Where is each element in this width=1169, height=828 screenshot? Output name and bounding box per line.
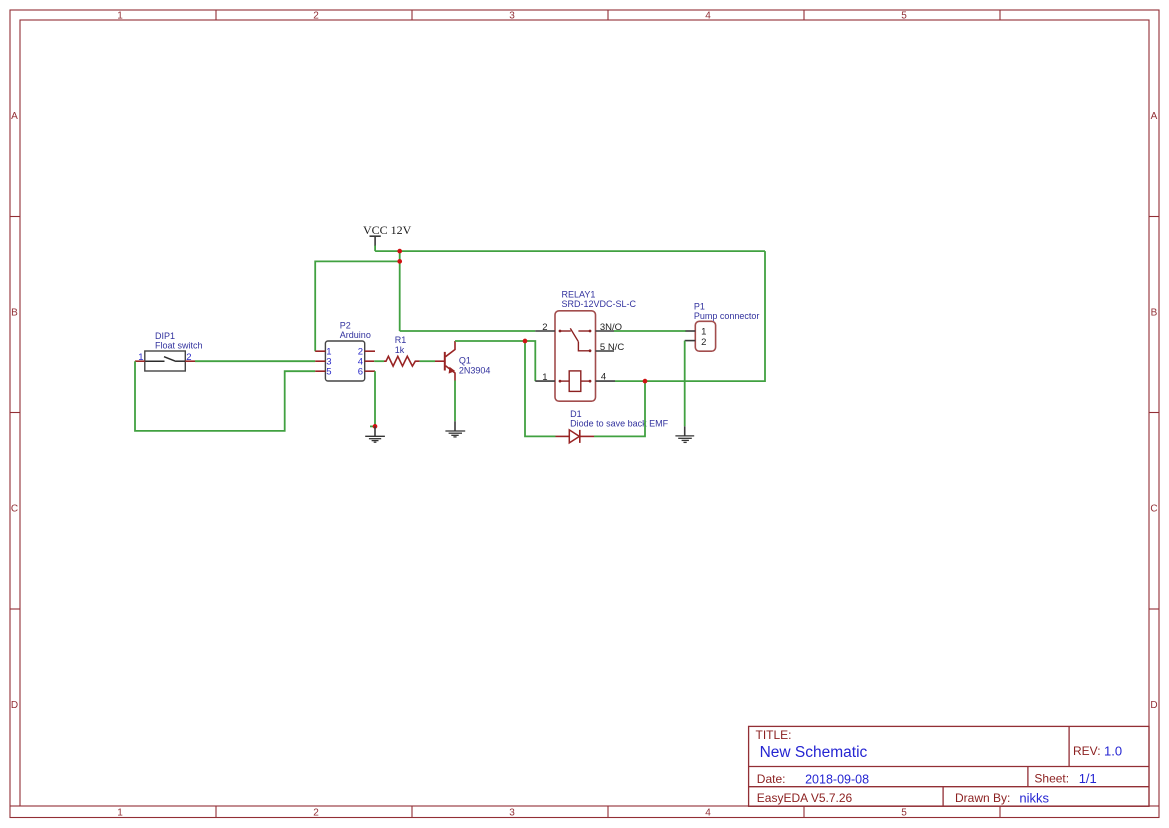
wire VCC drop to relay pin2 [399, 251, 401, 331]
ground under Q1 [445, 421, 465, 437]
svg-text:4: 4 [601, 372, 606, 383]
svg-text:4: 4 [705, 808, 711, 819]
svg-text:6: 6 [358, 367, 363, 378]
wire P2 pin4 to R1 [374, 360, 384, 362]
svg-text:4: 4 [705, 11, 711, 22]
resistor R1 [384, 356, 420, 366]
svg-text:1: 1 [117, 11, 123, 22]
svg-text:1.0: 1.0 [1104, 743, 1122, 758]
power flag VCC 12V [363, 223, 412, 251]
svg-text:2: 2 [701, 337, 706, 348]
RELAY1 pin numbers [542, 322, 624, 383]
svg-text:1: 1 [701, 327, 706, 338]
wire diode to relay pin4 [594, 381, 645, 436]
junction dot relay pin4 [643, 379, 648, 384]
junction dot P2 pin6 ground [373, 424, 378, 429]
Q1 labels [459, 356, 491, 376]
P1 pin numbers [701, 327, 706, 349]
wire stub left of junction [370, 425, 374, 427]
D1 labels [570, 409, 669, 429]
junction dot VCC rail [397, 249, 402, 254]
svg-text:B: B [1151, 307, 1158, 318]
diode D1 [556, 430, 595, 443]
svg-text:C: C [1150, 504, 1157, 515]
DIP1 labels [155, 331, 203, 351]
relay RELAY1 body [555, 311, 596, 401]
P1 labels [694, 301, 760, 321]
svg-text:A: A [11, 111, 18, 122]
svg-text:D: D [11, 700, 18, 711]
RELAY1 labels [562, 289, 637, 309]
svg-text:Float switch: Float switch [155, 341, 203, 351]
svg-text:B: B [11, 307, 18, 318]
svg-text:R1: R1 [395, 335, 407, 345]
RELAY1 pin 3 stub [596, 330, 615, 332]
DIP switch DIP1 [135, 351, 195, 371]
svg-text:5: 5 [901, 11, 907, 22]
junction dot collector/diode branch [523, 339, 528, 344]
svg-text:Date:: Date: [757, 772, 786, 786]
svg-text:nikks: nikks [1019, 791, 1049, 806]
RELAY1 coil [559, 371, 592, 392]
svg-text:Diode to save back EMF: Diode to save back EMF [570, 419, 669, 429]
wire DIP1 pin1 loop to P2 pin5 [135, 361, 315, 431]
svg-text:2N3904: 2N3904 [459, 365, 491, 375]
ground under P2 [365, 426, 385, 442]
RELAY1 pin 4 stub [596, 380, 616, 382]
svg-text:1: 1 [542, 372, 547, 383]
wire right rail to relay pin4 [615, 251, 765, 381]
wire to relay pin 2 [400, 330, 536, 332]
RELAY1 pin 5 stub [596, 350, 615, 352]
svg-text:EasyEDA V5.7.26: EasyEDA V5.7.26 [757, 791, 853, 805]
P2 labels [340, 321, 371, 341]
wire DIP1 pin2 to P2 pin3 [195, 360, 315, 362]
junction dot P2 pin1 branch [397, 259, 402, 264]
svg-text:3: 3 [509, 808, 515, 819]
svg-text:DIP1: DIP1 [155, 331, 175, 341]
wire P2 pin6 to ground [374, 371, 376, 426]
svg-text:C: C [11, 504, 18, 515]
transistor Q1 2N3904 [435, 341, 455, 381]
svg-text:New Schematic: New Schematic [760, 744, 868, 761]
svg-text:2: 2 [186, 352, 191, 363]
R1 labels [395, 335, 407, 355]
svg-text:P2: P2 [340, 321, 351, 331]
svg-text:1/1: 1/1 [1079, 771, 1097, 786]
wire relay pin4 junction to diode [525, 341, 556, 436]
svg-text:REV:: REV: [1073, 744, 1101, 758]
svg-text:5: 5 [901, 808, 907, 819]
connector P2 Arduino [315, 341, 375, 381]
svg-text:2: 2 [313, 11, 319, 22]
svg-text:SRD-12VDC-SL-C: SRD-12VDC-SL-C [562, 299, 637, 309]
svg-text:D: D [1150, 700, 1157, 711]
svg-text:2: 2 [542, 322, 547, 333]
DIP1 pin numbers 1,2 [138, 352, 191, 363]
svg-text:P1: P1 [694, 301, 705, 311]
wire P1 pin2 to ground [684, 341, 686, 427]
svg-text:3: 3 [509, 11, 515, 22]
svg-text:2018-09-08: 2018-09-08 [805, 773, 869, 787]
wire to P2 pin 1 [315, 261, 400, 351]
svg-text:Pump connector: Pump connector [694, 311, 760, 321]
wire R1 to Q1 base [420, 360, 435, 362]
svg-text:2: 2 [313, 808, 319, 819]
title block [749, 726, 1149, 806]
RELAY1 pin 2 stub [535, 330, 555, 332]
RELAY1 pin 1 stub [535, 380, 555, 382]
wire Q1 emitter to ground [454, 381, 456, 422]
svg-text:1: 1 [117, 808, 123, 819]
svg-text:Arduino: Arduino [340, 330, 371, 340]
ground under P1 [675, 426, 694, 442]
svg-text:Q1: Q1 [459, 356, 471, 366]
connector P1 Pump connector [685, 321, 716, 351]
svg-text:TITLE:: TITLE: [756, 728, 792, 742]
svg-text:A: A [1151, 111, 1158, 122]
svg-text:VCC 12V: VCC 12V [363, 223, 412, 237]
svg-text:1k: 1k [395, 345, 405, 355]
svg-text:1: 1 [138, 352, 143, 363]
P2 pin numbers 1-6 [326, 347, 363, 378]
wire VCC rail [375, 250, 765, 252]
svg-text:Drawn By:: Drawn By: [955, 791, 1010, 805]
svg-text:Sheet:: Sheet: [1034, 772, 1069, 786]
svg-text:5 N/C: 5 N/C [600, 342, 624, 353]
svg-text:5: 5 [326, 367, 331, 378]
wire relay pin3 to P1 pin1 [614, 330, 686, 332]
RELAY1 switch internals [559, 328, 592, 352]
svg-text:D1: D1 [570, 409, 582, 419]
wire Q1 collector to relay pin1 [455, 341, 535, 381]
svg-text:RELAY1: RELAY1 [562, 289, 596, 299]
